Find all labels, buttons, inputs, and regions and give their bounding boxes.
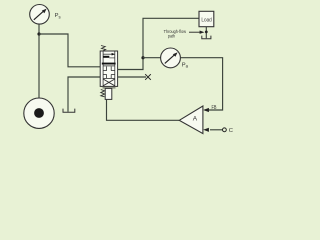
load block (199, 11, 214, 26)
command input C (203, 128, 226, 132)
svg-text:Ps: Ps (55, 13, 61, 19)
servo valve V1 (100, 46, 117, 100)
wire valve port T to tank (68, 77, 100, 112)
node through-flow junction (205, 31, 208, 34)
plugged port X (145, 74, 151, 80)
feedback arrowhead (203, 108, 209, 112)
wire from gauge Ps down to pump (38, 24, 40, 98)
svg-text:Pa: Pa (182, 62, 189, 68)
tank (left reservoir) (63, 109, 75, 113)
node Pa junction (141, 56, 144, 59)
wire valve port A to load (118, 18, 199, 69)
wire load drain (205, 27, 207, 39)
valve body (100, 51, 117, 86)
wire valve blocked port B (118, 76, 146, 78)
svg-text:path: path (168, 34, 175, 40)
cell divider black bar (102, 63, 116, 65)
pressure gauge Pa (161, 48, 181, 68)
svg-text:Load: Load (201, 18, 211, 24)
pressure gauge Ps (30, 5, 50, 25)
valve top spring (101, 46, 106, 52)
pump (pressure source) (24, 98, 54, 128)
wire gauge Pa to feedback (180, 58, 222, 110)
tank (load reservoir) (202, 36, 211, 39)
label Through-flow path (164, 29, 187, 40)
wire supply junction to valve port P (39, 34, 100, 67)
node supply junction (37, 32, 40, 35)
wire valve actuator to amplifier (107, 100, 180, 121)
op-amp A (179, 106, 203, 134)
wire Pa branch (143, 57, 161, 59)
svg-text:C: C (229, 128, 233, 134)
svg-text:A: A (193, 116, 198, 123)
valve actuator box (103, 87, 116, 89)
valve bottom spring (101, 90, 105, 97)
cell 1 metering lines (103, 53, 115, 55)
closed-centre cross cell (103, 67, 115, 79)
svg-text:FB: FB (212, 105, 218, 111)
through-flow pointer arrow (189, 31, 204, 34)
crossed-flow cell (103, 79, 115, 86)
